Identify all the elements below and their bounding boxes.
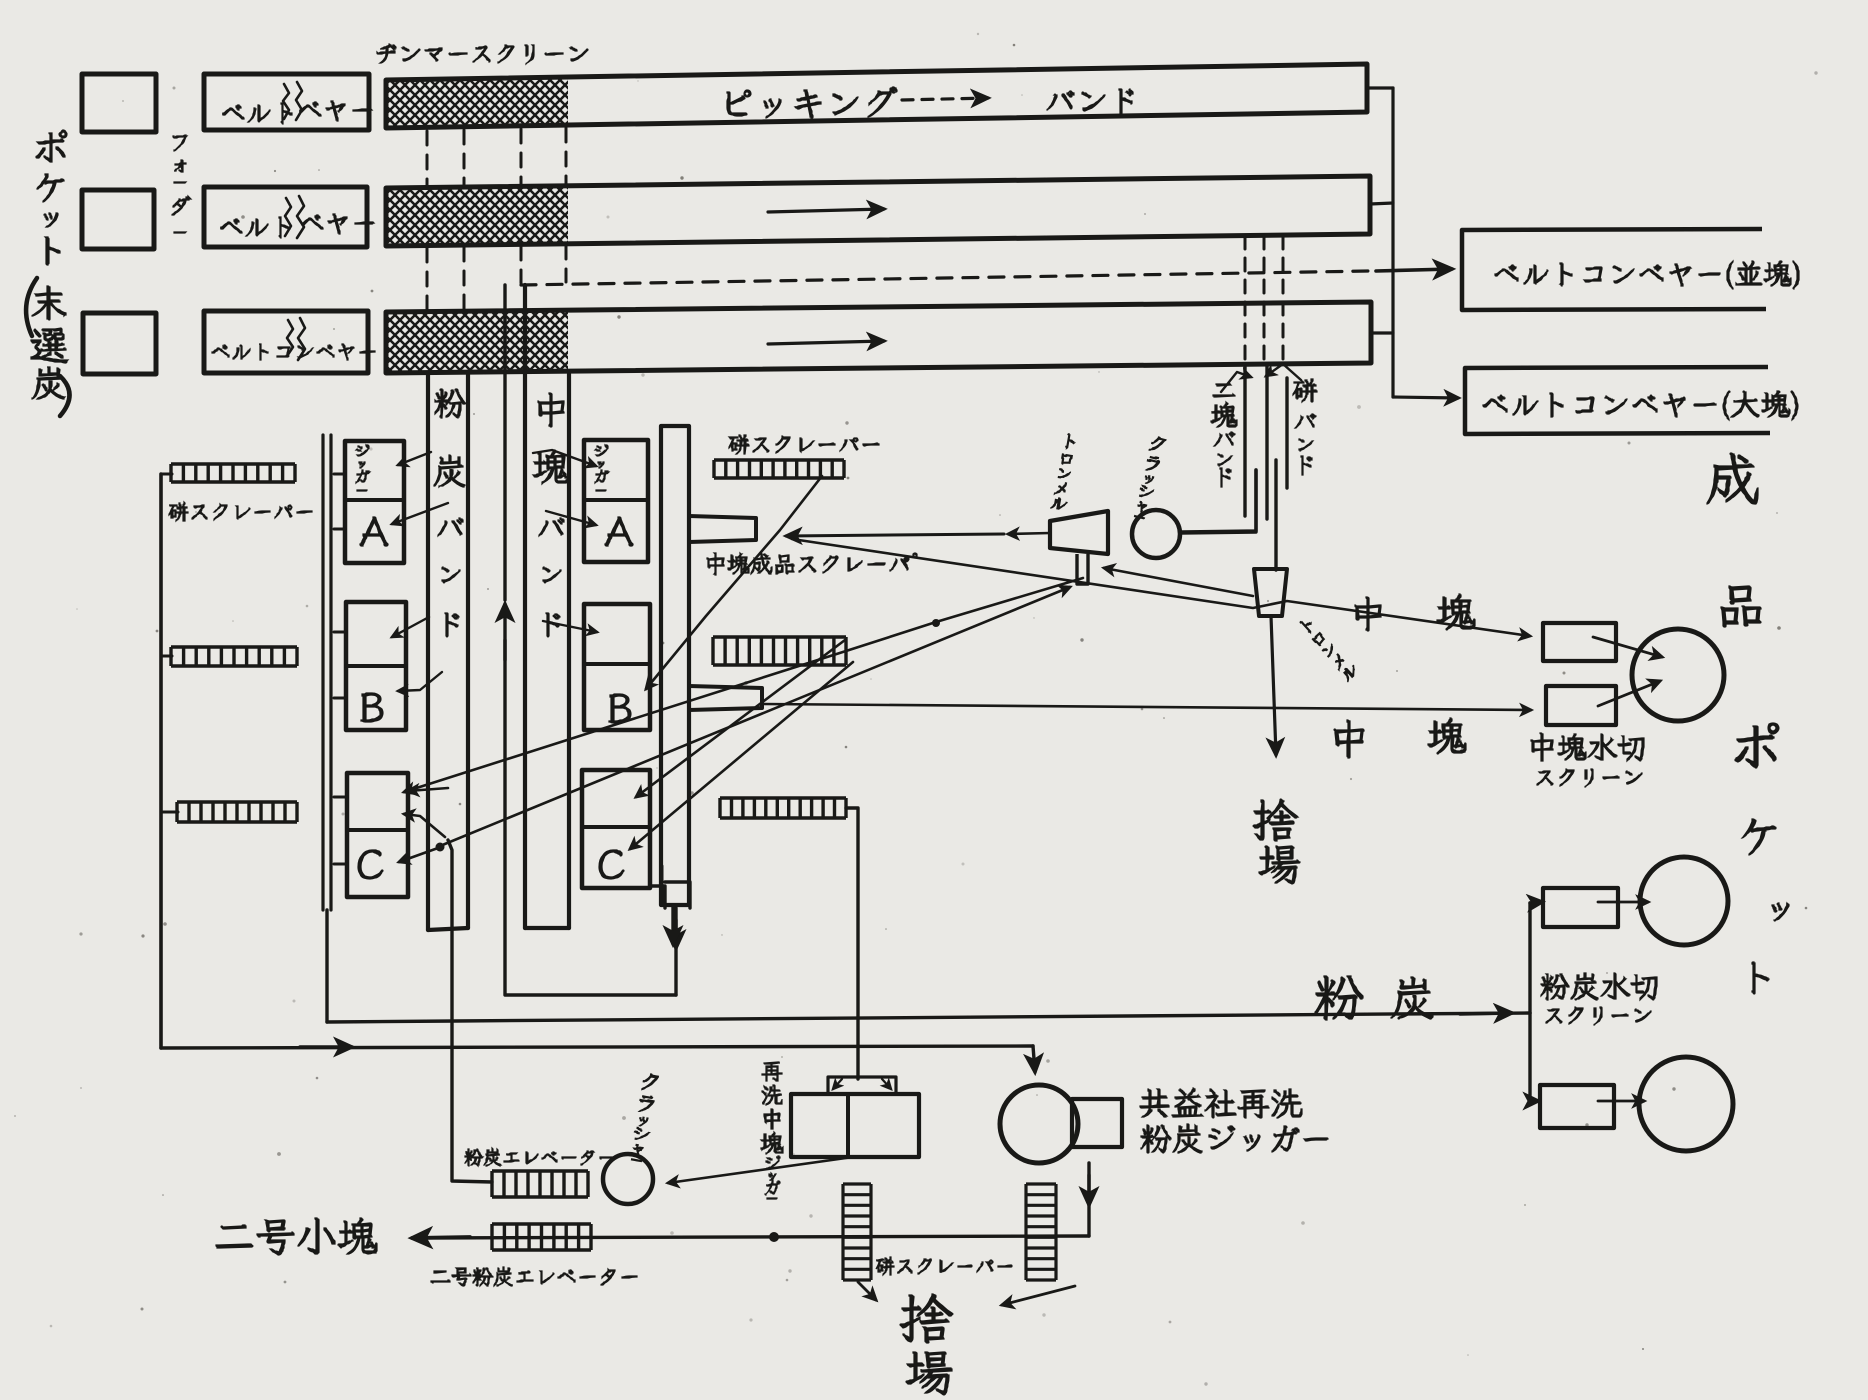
dashed line under screen x464b — [463, 247, 466, 309]
pocket box 2 — [82, 190, 154, 249]
divider of K2 — [584, 662, 650, 666]
squiggle in feed box 1 right — [296, 82, 302, 120]
arrow into screen rect4 — [1530, 1099, 1538, 1102]
dashed nikai band x1264 — [1263, 236, 1266, 364]
label funtan band — [434, 389, 466, 637]
crusher CR1 — [1132, 510, 1180, 558]
label pocket — [36, 130, 67, 265]
band 3 screen hatch — [388, 311, 568, 372]
label A1 — [360, 517, 388, 546]
band 2 screen hatch — [388, 187, 568, 245]
arrow to ookai conveyor — [1393, 397, 1458, 398]
label chukai mizukiri — [1531, 733, 1644, 761]
label jigger2 — [595, 445, 609, 491]
label belt conveyor namikai — [1495, 261, 1799, 289]
bota scraper ladder 3 — [177, 802, 297, 822]
jigger box J3 (C) — [347, 773, 408, 897]
bota scraper ladder 1 — [171, 464, 295, 482]
arrow to namikai conveyor — [1376, 269, 1452, 271]
label trommel1 — [1051, 433, 1079, 511]
line T1 to seihin scraper part1 — [1008, 533, 1050, 534]
K3 outlet hook rect — [665, 882, 690, 908]
line T1 chute to J3 — [404, 578, 1083, 792]
arrow rect4 to circle C — [1598, 1100, 1644, 1103]
saisen feed arrow right — [882, 1079, 891, 1089]
squiggle in feed box 2 right — [297, 196, 304, 238]
line T1 to seihin scraper part2 — [786, 534, 1004, 536]
divider of K3 — [582, 825, 650, 829]
junction dot near J3 — [436, 843, 445, 852]
dashed line under screen x464a — [463, 130, 466, 186]
pocket box 1 — [82, 74, 156, 132]
line ladder2 to K3 upper — [636, 640, 845, 797]
band 2 flow arrow — [768, 209, 884, 212]
belt conveyor feed box 2 — [204, 187, 367, 247]
trommel T1 chute — [1077, 554, 1088, 584]
arrow into screen rect3 — [1530, 902, 1542, 903]
label misentan — [31, 286, 68, 399]
label suteba right — [1253, 799, 1300, 884]
bota scraper mid ladder 1 — [714, 460, 844, 478]
line funtan stub to screen2 — [763, 704, 1531, 710]
jigger support line b — [329, 435, 332, 910]
dashed line under screen x521a — [520, 129, 523, 185]
label dinner-screen — [377, 44, 588, 64]
squiggle in feed box 1 — [283, 84, 289, 119]
label saisen chukai jigger — [761, 1062, 783, 1199]
chukai screen rect1 — [1543, 623, 1616, 661]
arrow into J2 B — [398, 672, 442, 691]
nikai band line a — [1243, 367, 1246, 516]
belt conveyor feed box 3 — [204, 311, 368, 373]
seihin pocket circle A — [1632, 629, 1724, 721]
band 1 right stub — [1367, 86, 1393, 89]
line seihin to T2 to screen1 — [792, 539, 1530, 636]
ookai conveyor box — [1465, 367, 1770, 434]
stub to J1 top — [334, 473, 345, 476]
short arrow into J3 upper — [408, 788, 448, 791]
waste arrow from right drain ladder — [1002, 1286, 1075, 1305]
divider of K1 — [584, 498, 648, 502]
screen feed vertical — [1528, 903, 1531, 1013]
conveyor band 2 outline — [386, 176, 1370, 246]
bota scraper ladder 2 — [171, 647, 297, 666]
funtan band strip bottom — [428, 928, 468, 930]
arrow rect1 to circle A — [1593, 637, 1662, 657]
label chukai lower — [1334, 718, 1466, 758]
bota band line b — [1274, 460, 1277, 570]
label jigger1 — [356, 445, 370, 491]
arrow junction to J3 C — [399, 848, 438, 862]
squiggle in feed box 3 right — [298, 318, 305, 360]
no2 funtan elevator ladder — [492, 1224, 591, 1250]
funtan seihin scraper stub — [689, 686, 762, 710]
band 1 screen hatch — [388, 78, 568, 126]
label belt conveyor 2b — [301, 214, 374, 234]
no2 kokai arrowhead — [412, 1237, 470, 1238]
stub to J3 C — [334, 863, 347, 866]
conveyor band 3 outline — [386, 302, 1371, 373]
label funtan big — [1315, 976, 1433, 1020]
stub to J2 B — [334, 697, 346, 700]
arrow into K1 A — [546, 511, 596, 525]
arrow rect2 to circle A — [1598, 681, 1660, 706]
dashed line under screen x427a — [426, 131, 429, 186]
stub to J1 A — [334, 528, 345, 531]
J3 drain hook arrow — [404, 814, 445, 837]
label nikai band — [1211, 383, 1237, 487]
no2 kokai line — [420, 1236, 1089, 1238]
bota band line c — [1285, 378, 1288, 488]
label belt conveyor 1a — [222, 103, 292, 124]
collect strip bottom notch — [661, 866, 664, 905]
chukai seihin scraper stub — [689, 516, 756, 542]
bota scraper mid ladder 3 — [720, 798, 846, 818]
label funtan mizukiri — [1541, 973, 1657, 1000]
arrow saisen box to CR2 — [668, 1157, 853, 1183]
curved arrow to bota band — [1266, 364, 1301, 380]
label C2 — [599, 850, 624, 879]
dashed nikai band x1245 — [1244, 236, 1247, 364]
label kyoekisha line2 — [1141, 1124, 1328, 1153]
stub to J2 top — [334, 631, 346, 634]
band 3 flow arrow — [768, 341, 884, 344]
label bota band — [1293, 379, 1317, 475]
label feeder — [172, 135, 191, 233]
arrow into J1 A — [392, 503, 448, 524]
band 3 right stub — [1371, 331, 1393, 334]
squiggle in feed box 2 — [285, 198, 291, 236]
trommel T1 — [1050, 511, 1108, 554]
right connector vertical — [1391, 88, 1394, 397]
arrow into K2 upper — [543, 621, 597, 632]
funtan band strip left edge — [426, 374, 430, 930]
label belt conveyor 2a — [220, 217, 290, 238]
crusher CR2 — [603, 1154, 653, 1204]
bota band line a — [1265, 364, 1268, 519]
label bota scraper left — [169, 502, 312, 521]
paren close of misentan — [60, 376, 70, 416]
saisen box feed bracket — [828, 1077, 896, 1094]
label B2 — [609, 694, 631, 723]
scraper collect vertical — [159, 474, 163, 1048]
arrow into K1 jigger — [533, 450, 596, 466]
seihin collect strip — [661, 426, 689, 905]
curved arrow to nikai band — [1221, 372, 1251, 392]
label belt conveyor 3 — [212, 344, 375, 360]
crusher CR1 feed line — [1182, 470, 1256, 532]
junction dot on no2 line — [769, 1232, 779, 1242]
scraper stub 2 — [161, 655, 172, 658]
kyoekisha jigger circle — [1000, 1085, 1078, 1163]
dashed line under screen x427b — [426, 248, 429, 309]
band 1 picking dashed arrow — [902, 98, 988, 100]
scraper stub 1 — [161, 473, 172, 476]
jigger support line a — [321, 435, 324, 910]
return line upper part — [503, 285, 506, 600]
belt conveyor feed box 1 — [204, 74, 369, 130]
funtan line to screens — [327, 1013, 1530, 1022]
label funtan screen — [1546, 1007, 1651, 1025]
stub to J3 top — [334, 796, 347, 799]
down arrow head segment — [674, 920, 677, 948]
dashed line under screen x566a — [565, 128, 568, 185]
saisen feed arrow left — [833, 1079, 842, 1089]
pocket box 3 — [83, 313, 156, 374]
bota drain ladder left — [843, 1184, 871, 1280]
kyoekisha jigger outlet box — [1072, 1099, 1122, 1147]
down arrow below collect strip — [671, 905, 674, 944]
K3 outlet hook — [650, 886, 665, 908]
kyoekisha outlet arrowhead — [1087, 1175, 1090, 1205]
collect line arrowhead — [300, 1045, 352, 1048]
kyoekisha outlet line — [1087, 1163, 1090, 1236]
label chukai upper — [1355, 594, 1475, 631]
label bota scraper bottom — [876, 1257, 1012, 1275]
label C1 — [358, 850, 383, 879]
dashed line under screen x566b — [565, 245, 568, 282]
arrow rect3 to circle B — [1598, 901, 1648, 904]
squiggle in feed box 3 — [287, 320, 293, 356]
divider of J2 — [346, 664, 406, 668]
label picking — [727, 87, 897, 118]
waste line from T2 — [1271, 616, 1276, 755]
label belt conveyor 1b — [299, 101, 372, 121]
funtan elevator ladder — [492, 1171, 588, 1197]
jigger box K3 (C) — [582, 770, 650, 888]
band 2 right stub — [1370, 203, 1393, 204]
label belt conveyor ookai — [1483, 391, 1798, 420]
chukai band strip right edge — [567, 374, 571, 928]
seihin pocket circle C — [1639, 1057, 1733, 1151]
mid ladder3 outlet line — [846, 808, 858, 1079]
conveyor band 1 outline — [386, 64, 1367, 128]
saisen box divider — [846, 1094, 850, 1157]
line C1 junction to T1 chute — [440, 587, 1070, 846]
up arrow head segment — [503, 604, 506, 660]
scraper stub 3 — [161, 811, 178, 814]
label seihin pocket — [1707, 453, 1789, 994]
bota scraper mid ladder 2 — [713, 637, 846, 665]
chukai band strip left edge — [523, 285, 527, 928]
label no2 kokai — [216, 1218, 377, 1255]
arrow into J1 jigger — [398, 452, 431, 465]
line ladder1 to K2 — [646, 476, 822, 689]
label funtan elevator — [465, 1148, 614, 1166]
waste arrow from left drain ladder — [858, 1282, 876, 1300]
line T2 to T1 chute — [1104, 568, 1253, 596]
jigger support to funtan line — [325, 910, 328, 1022]
J3 drain line — [448, 840, 492, 1182]
jigger box J1 (jigger/A) — [345, 441, 404, 563]
funtan screen rect3 — [1543, 888, 1618, 927]
label band — [1047, 89, 1133, 114]
jigger box K1 (jigger/A) — [584, 440, 648, 562]
label kyoekisha line1 — [1140, 1088, 1302, 1118]
junction dot on chute line — [932, 619, 940, 627]
bota drain ladder right — [1026, 1184, 1056, 1280]
divider of J3 — [347, 828, 408, 832]
label chukai band — [533, 393, 569, 637]
divider of J1 — [345, 498, 404, 502]
line ladder2 to K3 lower — [630, 662, 853, 849]
namikai conveyor box — [1462, 229, 1766, 310]
jigger box J2 (B) — [346, 602, 406, 730]
paren open of misentan — [26, 278, 37, 336]
label B1 — [361, 693, 383, 722]
dashed namikai line — [521, 271, 1370, 285]
seihin pocket circle B — [1640, 857, 1728, 945]
label chukai seihin scraper — [707, 553, 917, 575]
return line with up arrow — [505, 640, 676, 995]
label crusher2 — [630, 1073, 660, 1162]
saisen chukai jigger box — [791, 1094, 919, 1157]
screen feed vertical down — [1528, 1013, 1531, 1101]
funtan screen rect4 — [1540, 1085, 1614, 1128]
funtan band strip right edge — [466, 374, 470, 928]
label crusher1 — [1133, 435, 1167, 519]
arrow into J2 upper — [392, 617, 429, 637]
chukai band strip bottom — [525, 926, 569, 930]
nikai band line b — [1180, 470, 1256, 533]
label suteba bottom — [900, 1294, 953, 1395]
down arrow from K3 — [674, 908, 677, 995]
label A2 — [605, 517, 633, 546]
funtan line arrowhead — [1460, 1013, 1512, 1014]
jigger box K2 (B) — [584, 604, 650, 730]
label no2 funtan elevator — [431, 1267, 637, 1286]
dashed bota band x1283 — [1282, 236, 1285, 364]
chukai screen rect2 — [1546, 686, 1616, 725]
scraper collect line to jigger — [161, 1046, 1033, 1048]
dashed line under screen x521b — [520, 246, 523, 283]
collect line corner down — [1033, 1046, 1035, 1072]
label chukai screen — [1537, 769, 1642, 787]
trommel T2 — [1254, 569, 1287, 616]
label bota scraper mid — [729, 435, 879, 454]
label trommel2 — [1297, 615, 1360, 682]
